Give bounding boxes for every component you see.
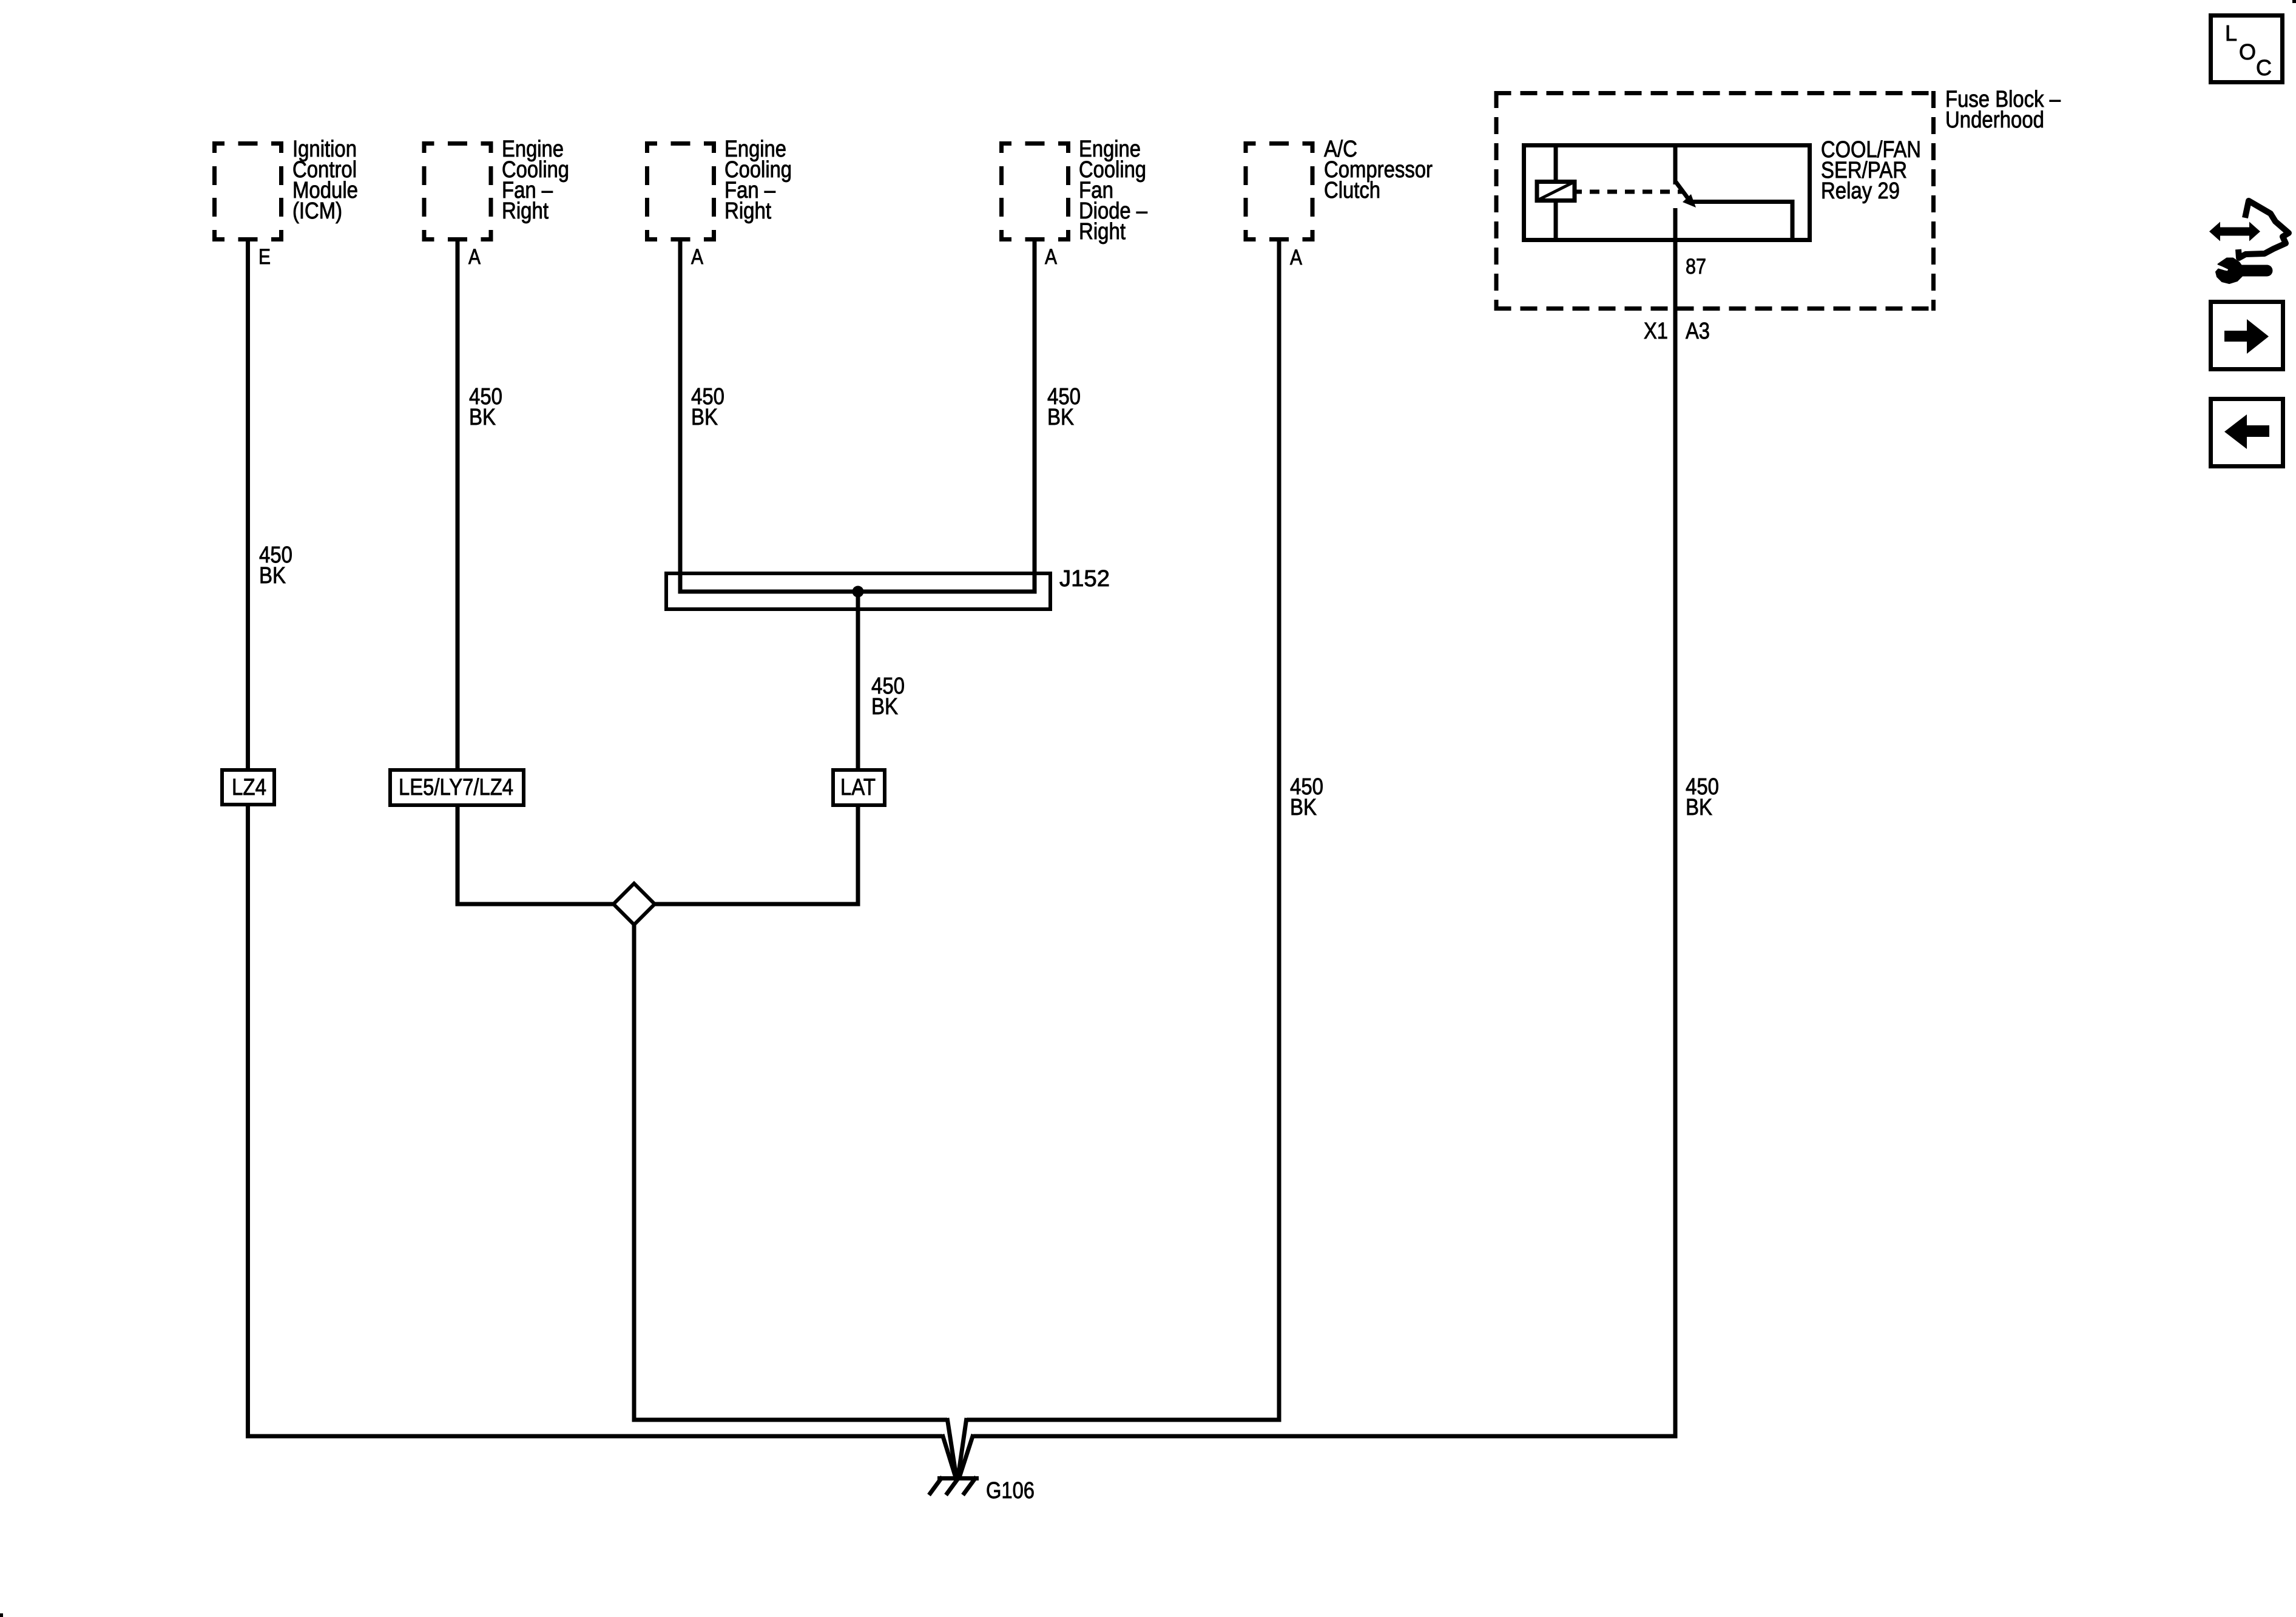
svg-text:BK: BK <box>1047 405 1074 430</box>
svg-text:LE5/LY7/LZ4: LE5/LY7/LZ4 <box>399 775 513 800</box>
svg-text:E: E <box>258 245 271 269</box>
wire label 450 BK (fan 1) <box>469 384 502 430</box>
engine option box LE5/LY7/LZ4 <box>390 770 524 805</box>
svg-text:Right: Right <box>724 198 771 224</box>
svg-text:A: A <box>468 245 481 269</box>
wire 450 BK from ICM pin E to lower ground bus <box>246 240 250 1439</box>
wire 450 BK from relay pin 87 / fuse block X1-A3 to lower ground bus <box>1673 208 1678 1439</box>
svg-text:J152: J152 <box>1059 566 1110 592</box>
svg-text:LZ4: LZ4 <box>232 775 266 800</box>
wire 450 BK from Engine Cooling Fan Diode Right pin A to splice J152 <box>1033 240 1037 594</box>
ground G106 symbol <box>929 1477 979 1495</box>
svg-text:BK: BK <box>1686 795 1712 820</box>
svg-text:C: C <box>2256 55 2272 80</box>
svg-text:(ICM): (ICM) <box>292 198 342 224</box>
svg-text:BK: BK <box>259 563 286 589</box>
wire label 450 BK (splice output) <box>871 673 905 720</box>
svg-text:Clutch: Clutch <box>1324 178 1380 203</box>
engine option box LAT <box>833 770 885 805</box>
relay 29 rectangle <box>1524 146 1810 240</box>
relay switch output wire to right side <box>1692 202 1792 241</box>
connector: Engine Cooling Fan - Right (1) dashed box <box>422 141 493 241</box>
pin label A (fan 2) <box>691 245 704 269</box>
svg-text:87: 87 <box>1686 255 1706 279</box>
label: Ignition Control Module (ICM) <box>292 137 358 224</box>
page corner printing artifact <box>2292 0 2296 3</box>
label J152 <box>1059 566 1110 592</box>
label: Engine Cooling Fan - Right (2) <box>724 137 792 224</box>
relay coil return wire (bottom) <box>1554 203 1558 238</box>
svg-text:BK: BK <box>1290 795 1317 820</box>
wire 450 BK from Engine Cooling Fan Right (2) pin A to splice J152 <box>678 240 683 594</box>
upper ground bus: diamond branch and A/C clutch to ground V <box>632 1418 1281 1477</box>
svg-text:X1: X1 <box>1644 319 1668 344</box>
service information icon (double arrow, outline, wrench) <box>2209 201 2289 283</box>
pin label 87 <box>1686 255 1706 279</box>
wire 450 BK from Engine Cooling Fan Right (1) pin A down to engine-option junction <box>456 240 460 906</box>
label: A/C Compressor Clutch <box>1324 137 1433 203</box>
splice J152 bus bar <box>680 590 1035 594</box>
connector: Ignition Control Module (ICM) dashed box <box>212 141 283 241</box>
svg-text:G106: G106 <box>986 1478 1035 1504</box>
label: Engine Cooling Fan Diode - Right <box>1079 137 1148 245</box>
pin label A (fan 1) <box>468 245 481 269</box>
wire label 450 BK (diode) <box>1047 384 1081 430</box>
svg-text:Right: Right <box>1079 219 1126 245</box>
page corner printing artifact (bottom-left) <box>0 1613 3 1617</box>
connector: Engine Cooling Fan - Right (2) dashed box <box>645 141 716 241</box>
fuse block underhood dashed outline <box>1494 91 1936 311</box>
diamond junction of engine-option branches <box>613 883 655 925</box>
label G106 <box>986 1478 1035 1504</box>
svg-text:Relay 29: Relay 29 <box>1821 178 1900 204</box>
svg-text:A3: A3 <box>1686 319 1710 344</box>
relay switch common (pin 30 side) <box>1673 145 1678 184</box>
relay actuation dashed link <box>1576 190 1684 194</box>
relay coil feed wire (top) <box>1554 145 1558 180</box>
connector: Engine Cooling Fan Diode - Right dashed box <box>999 141 1070 241</box>
svg-text:A: A <box>1290 246 1303 269</box>
LOC legend icon <box>2211 16 2283 83</box>
back arrow navigation box <box>2211 399 2283 467</box>
svg-text:BK: BK <box>871 694 898 720</box>
label: Engine Cooling Fan - Right (1) <box>502 137 569 224</box>
lower ground bus: ICM and relay 87 to ground V <box>246 1434 1678 1477</box>
splice junction dot <box>853 586 864 598</box>
horizontal wire joining LE5/LY7/LZ4 and LAT branches at diamond junction <box>456 902 860 906</box>
wire label 450 BK (relay 87) <box>1686 774 1719 820</box>
svg-text:Underhood: Underhood <box>1945 107 2044 133</box>
forward arrow navigation box <box>2211 302 2283 370</box>
wire 450 BK from A/C Compressor Clutch pin A to upper ground bus <box>1277 240 1281 1422</box>
pin label E <box>258 245 271 269</box>
svg-text:Right: Right <box>502 198 549 224</box>
wire label 450 BK (ICM) <box>259 542 292 589</box>
pin label A (A/C clutch) <box>1290 246 1303 269</box>
svg-text:BK: BK <box>691 405 718 430</box>
svg-text:LAT: LAT <box>840 775 876 800</box>
relay switch blade with arrowhead <box>1676 182 1696 208</box>
svg-text:A: A <box>691 245 704 269</box>
wire 450 BK from J152 splice through LAT option to junction <box>856 592 860 906</box>
pin label A (diode) <box>1045 245 1058 269</box>
wire label 450 BK (fan 2) <box>691 384 724 430</box>
svg-text:O: O <box>2239 39 2256 64</box>
connector: A/C Compressor Clutch dashed box <box>1244 141 1315 241</box>
wire from diamond junction down to upper ground bus <box>632 922 636 1422</box>
engine option box LZ4 <box>222 770 274 805</box>
label: COOL/FAN SER/PAR Relay 29 <box>1821 137 1921 204</box>
splice pack J152 outline <box>666 573 1050 609</box>
svg-text:BK: BK <box>469 405 496 430</box>
svg-text:A: A <box>1045 245 1058 269</box>
svg-text:L: L <box>2225 21 2237 46</box>
label: Fuse Block - Underhood <box>1945 87 2061 133</box>
wire label 450 BK (A/C clutch) <box>1290 774 1323 820</box>
relay coil <box>1537 182 1575 201</box>
connector labels X1 A3 <box>1644 319 1710 344</box>
